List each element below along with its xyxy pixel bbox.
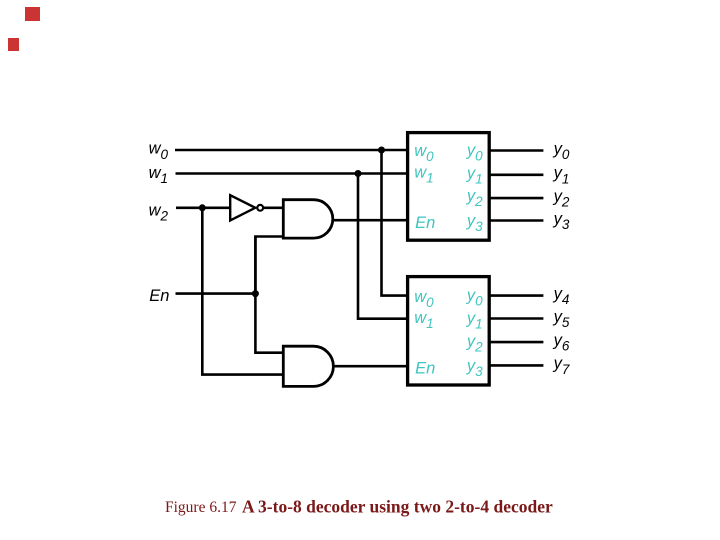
svg-text:y5: y5 <box>553 308 570 330</box>
svg-text:y0: y0 <box>553 140 570 162</box>
svg-text:En: En <box>415 359 435 377</box>
svg-text:y2: y2 <box>553 187 570 209</box>
svg-text:En: En <box>415 214 435 232</box>
svg-text:y4: y4 <box>553 285 570 307</box>
svg-text:y6: y6 <box>553 331 570 353</box>
svg-text:y1: y1 <box>553 164 570 186</box>
svg-text:A 3-to-8 decoder using two 2-t: A 3-to-8 decoder using two 2-to-4 decode… <box>242 496 553 516</box>
svg-text:y7: y7 <box>553 355 570 377</box>
svg-text:y3: y3 <box>553 210 570 232</box>
svg-text:w2: w2 <box>149 201 169 223</box>
svg-text:Figure 6.17: Figure 6.17 <box>165 499 237 516</box>
svg-text:w0: w0 <box>149 140 169 162</box>
svg-text:w1: w1 <box>149 164 168 186</box>
svg-text:En: En <box>149 287 169 305</box>
